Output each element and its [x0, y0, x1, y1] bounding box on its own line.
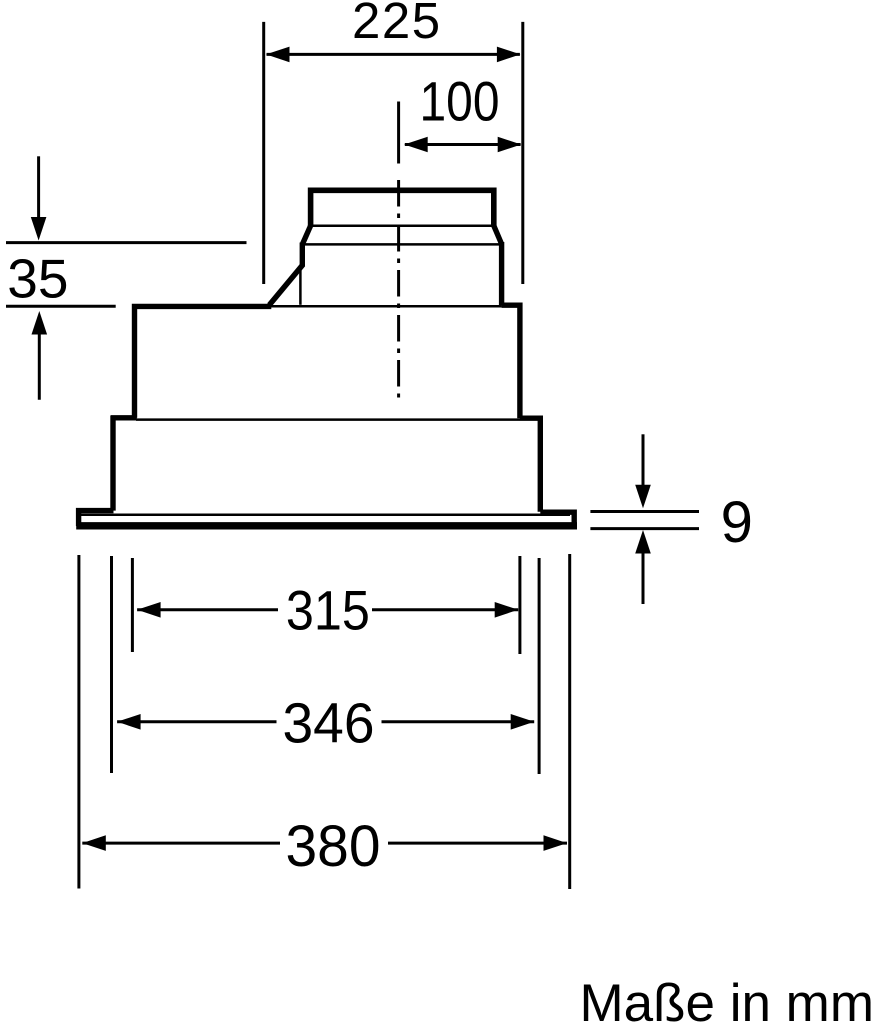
35 down arrowhead [31, 217, 47, 241]
35 down arrow line [37, 156, 40, 219]
svg-text:380: 380 [286, 814, 381, 879]
svg-text:Maße in mm: Maße in mm [580, 974, 874, 1024]
extension line 315 right [518, 556, 521, 654]
arrowhead 225 right [497, 47, 521, 63]
9 down arrow line [642, 434, 645, 487]
dimension line 346 left segment [117, 720, 276, 723]
arrowhead 380 left [82, 835, 106, 851]
svg-text:100: 100 [420, 70, 500, 133]
svg-text:315: 315 [286, 579, 370, 642]
hood sloped panel edge [269, 265, 303, 306]
35 up arrow line [38, 332, 41, 400]
duct left flare [302, 226, 310, 245]
extension line 346 right [538, 558, 541, 774]
dimension line 315 right segment [372, 608, 518, 611]
duct flare bottom line [303, 243, 501, 246]
9 up arrowhead [635, 530, 651, 554]
arrowhead 100 left [404, 137, 428, 153]
9 up arrow line [642, 552, 645, 605]
extension line 225 left [262, 22, 265, 284]
35 up arrowhead [32, 311, 48, 335]
duct collar outline (top cap) [311, 190, 494, 227]
arrowhead 346 right [511, 714, 535, 730]
extension line 315 left [131, 558, 134, 652]
arrowhead 346 left [117, 714, 141, 730]
arrowhead 380 right [544, 835, 568, 851]
extension line 380 left [77, 555, 80, 889]
svg-text:35: 35 [7, 248, 68, 310]
centerline dash-dot [397, 180, 400, 398]
body top rear edge (thin) [270, 305, 502, 308]
dimension line 380 right segment [388, 842, 567, 845]
tier1/tier2 right step and tier2 right edge [520, 418, 540, 512]
svg-text:225: 225 [352, 0, 442, 49]
duct right flare [494, 226, 502, 244]
extension line 225/100 right [521, 22, 524, 284]
body tier1 right step and edge [502, 305, 520, 418]
35 upper reference line [6, 241, 247, 244]
arrowhead 225 left [266, 47, 290, 63]
duct hidden edge [299, 265, 302, 305]
9 lower reference line [590, 527, 699, 530]
dimension line 346 right segment [382, 720, 535, 723]
extension line 346 left [110, 556, 113, 773]
bottom plate right lip [540, 512, 574, 528]
bottom plate left lip [79, 511, 114, 526]
dimension line 315 left segment [137, 608, 278, 611]
arrowhead 100 right [498, 137, 522, 153]
duct collar fold line [311, 224, 494, 227]
duct left side vertical [300, 243, 305, 267]
bottom plate top surface (thin) [80, 514, 570, 517]
duct right side vertical [499, 242, 504, 305]
bottom plate bottom edge (thick) [76, 522, 577, 529]
tier1/tier2 left step [111, 415, 137, 420]
svg-text:346: 346 [283, 692, 375, 756]
svg-text:9: 9 [721, 490, 753, 555]
dimension line 380 left segment [82, 842, 280, 845]
centerline solid segment [397, 102, 400, 164]
tier2 top edge (thin) [136, 418, 520, 421]
dimension line 100 [405, 143, 521, 146]
9 upper reference line [590, 510, 699, 513]
9 down arrowhead [635, 485, 651, 509]
tier2 left edge [110, 416, 115, 511]
35 lower reference line [6, 305, 116, 308]
arrowhead 315 right [495, 602, 519, 618]
dimension line 225 [267, 53, 520, 56]
extension line 380 right [568, 554, 571, 889]
arrowhead 315 left [137, 602, 161, 618]
body tier1 top and left edge [135, 306, 272, 417]
